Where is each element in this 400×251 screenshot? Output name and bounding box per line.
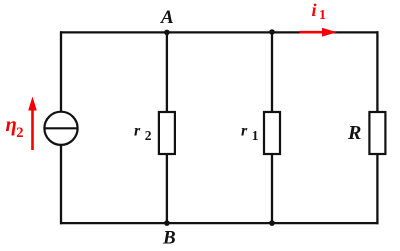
svg-text:A: A [160, 7, 174, 28]
wire right lower segment [376, 154, 378, 224]
svg-text:B: B [162, 228, 176, 249]
wire branch r2 lower [166, 154, 168, 223]
wire left lower segment [60, 145, 62, 224]
arrow i1 (current direction, red, rightward) [300, 28, 338, 37]
svg-text:i1: i1 [312, 0, 327, 23]
EMF source U1 (circle with bar) [44, 112, 77, 145]
node A junction dot [164, 30, 170, 36]
junction dot top r1 [269, 29, 275, 35]
wire left upper segment [60, 31, 62, 111]
wire bottom horizontal [60, 222, 379, 224]
wire branch r1 upper [271, 32, 273, 112]
wire branch r1 lower [271, 154, 273, 223]
resistor r1 [264, 112, 280, 154]
svg-text:r2: r2 [134, 123, 152, 143]
svg-text:r1: r1 [241, 123, 259, 143]
resistor R [369, 112, 385, 154]
arrow eta2 (EMF direction, red, upward) [28, 97, 37, 151]
wire branch r2 upper [166, 32, 168, 112]
junction dot bottom r1 [269, 220, 275, 226]
svg-text:η2: η2 [6, 114, 24, 141]
wire top horizontal [60, 31, 379, 33]
wire right upper segment [376, 31, 378, 112]
resistor r2 [159, 112, 175, 154]
node B junction dot [164, 220, 170, 226]
svg-text:R: R [347, 122, 361, 144]
